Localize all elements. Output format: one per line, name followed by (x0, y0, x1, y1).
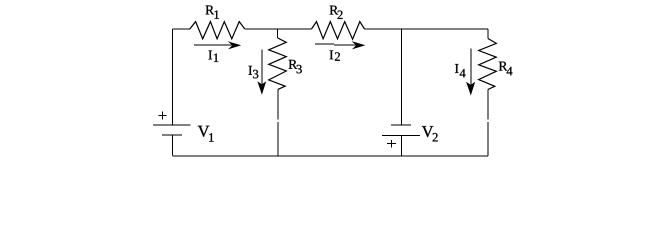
label R3 (289, 60, 302, 73)
wire node B lead down to V2 (400, 29, 402, 125)
wire R3 bottom lead to bottom wire (277, 89, 279, 156)
wire top middle segment (R1 to R2 through node A) (245, 28, 312, 30)
wire R4 bottom lead to bottom-right corner (487, 90, 489, 157)
resistor R2 (312, 22, 365, 40)
wire node A lead down to R3 (277, 29, 279, 38)
label I1 (209, 51, 219, 62)
label V2 (422, 126, 438, 141)
wire top right segment (R2 to top-right corner through node B) (365, 28, 489, 30)
wire left side (top corner down to V1 positive plate) (172, 29, 174, 125)
wire top-left segment (left corner to R1) (173, 28, 191, 30)
battery V1 (153, 125, 191, 135)
wire bottom (bottom-left corner to bottom-right corner) (173, 155, 489, 157)
wire right side top lead (top-right corner to R4) (487, 29, 489, 39)
label R2 (330, 6, 343, 19)
wire V1 negative plate down to bottom-left corner (172, 135, 174, 156)
current arrow I4 (466, 49, 475, 96)
wire V2 positive plate down to bottom wire (400, 135, 402, 155)
label V1 (198, 126, 214, 142)
current arrow I2 (315, 41, 365, 49)
current arrow I1 (194, 41, 241, 49)
resistor R3 (269, 38, 287, 89)
plus sign of V1 (158, 111, 166, 119)
resistor R1 (190, 22, 245, 39)
label I3 (249, 66, 259, 78)
label R4 (499, 62, 513, 76)
battery V2 (382, 125, 420, 135)
current arrow I3 (257, 50, 266, 95)
label I4 (455, 64, 466, 77)
resistor R4 (479, 39, 497, 90)
label R1 (206, 6, 219, 19)
plus sign of V2 (387, 140, 396, 148)
label I2 (330, 50, 340, 60)
